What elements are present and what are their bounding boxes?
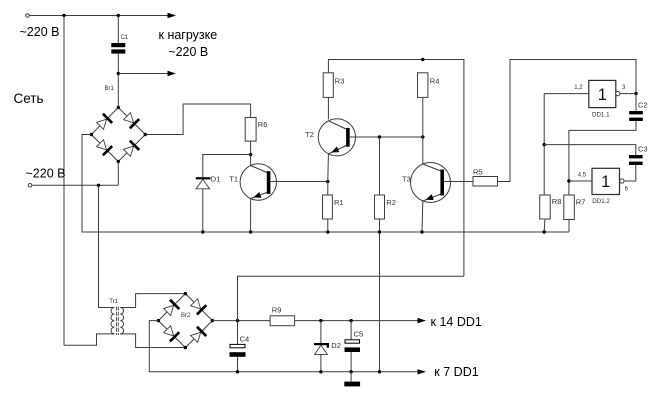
- node: T3 emitter on rail: [420, 230, 423, 233]
- svg-text:к 14 DD1: к 14 DD1: [431, 315, 482, 329]
- label C5: [354, 329, 364, 338]
- resistor R1: [323, 195, 333, 219]
- wire: R5 to DD1.1 output net: [498, 60, 637, 182]
- wire: node to D1 top: [203, 155, 251, 178]
- logic gate DD1.1 bubble: [616, 92, 620, 96]
- svg-text:C1: C1: [121, 35, 129, 41]
- svg-text:C2: C2: [638, 100, 648, 109]
- wire: C2 top lead: [635, 94, 637, 111]
- node: C4 on minus rail: [236, 370, 239, 373]
- wire: R8 bottom to rail: [543, 219, 546, 232]
- node: R2 line on minus rail: [378, 370, 381, 373]
- svg-text:к 7 DD1: к 7 DD1: [434, 365, 478, 379]
- diode D1 (triangle): [196, 179, 210, 188]
- arrow: to load (top line): [168, 13, 177, 18]
- wire: left mains to Tr1 primary bottom: [64, 334, 112, 345]
- transformer Tr1 core: [117, 307, 119, 336]
- wire: Br1 bottom vertex to lower mains: [117, 162, 119, 186]
- wire: C1 top lead: [117, 16, 119, 44]
- capacitor C4 plate+: [230, 344, 245, 347]
- wire: C3 top line: [544, 145, 636, 155]
- svg-text:R3: R3: [335, 77, 345, 86]
- terminal: mains input top: [26, 14, 30, 18]
- svg-text:1: 1: [601, 173, 610, 191]
- logic gate DD1.2 bubble: [620, 179, 624, 183]
- node: junction load arrow branch: [117, 72, 120, 75]
- wire: T3 emitter to rail: [421, 201, 424, 232]
- resistor R5: [473, 177, 498, 187]
- transformer Tr1 primary coil: [111, 308, 114, 334]
- wire: D2 anode lead: [320, 354, 322, 371]
- resistor R9: [270, 316, 295, 326]
- svg-text:R6: R6: [258, 120, 268, 129]
- wire: C2 bottom to DD1.2 input node: [569, 121, 636, 195]
- wire: T1 base to R1/T2 node: [270, 181, 327, 183]
- wire: T2 base line: [350, 136, 423, 138]
- wire: R6 bottom to T1 collector node: [250, 141, 252, 166]
- label C1: [121, 35, 129, 41]
- label k 7 DD1: [434, 365, 478, 379]
- wire: C1 bottom lead to bridge Br1: [117, 53, 119, 108]
- resistor R6: [245, 118, 256, 142]
- pin label 3: [622, 85, 626, 91]
- label DD1.1: [592, 111, 610, 118]
- transistor T3: [411, 163, 451, 203]
- wire: C4 top lead: [237, 321, 239, 345]
- node: T1 emitter on rail: [249, 230, 252, 233]
- node: D2 on minus rail: [319, 370, 322, 373]
- wire: Br1 right vertex to R6: [145, 104, 250, 135]
- label ~220 V (top left): [20, 25, 60, 39]
- wire: top supply rail: [328, 60, 464, 277]
- label T1: [229, 174, 238, 183]
- capacitor C3: [629, 155, 643, 165]
- svg-text:Tr1: Tr1: [109, 299, 118, 305]
- label C3: [638, 144, 648, 153]
- wire: Tr1 secondary bottom to Br2: [120, 334, 185, 348]
- label R6: [258, 120, 268, 129]
- capacitor C1: [111, 43, 125, 54]
- node: junction DD1.1 in / R8 / C3 line: [543, 143, 546, 146]
- resistor R8: [540, 195, 551, 219]
- label Br1: [105, 86, 115, 92]
- wire: load arrow line: [118, 73, 167, 75]
- svg-text:T3: T3: [402, 174, 411, 183]
- svg-text:T2: T2: [305, 130, 314, 139]
- label R4: [430, 77, 440, 86]
- wire: ground lead: [350, 372, 352, 382]
- transformer Tr1 secondary coil: [120, 308, 123, 334]
- svg-text:Сеть: Сеть: [14, 91, 44, 106]
- node: junction top line / left mains drop: [62, 14, 65, 17]
- label C2: [638, 100, 648, 109]
- wire: T1 emitter to rail: [250, 198, 252, 232]
- zener D2 triangle: [315, 345, 328, 354]
- wire: DD1.2 input: [569, 180, 592, 182]
- svg-text:R2: R2: [386, 198, 396, 207]
- label Br2: [181, 313, 191, 319]
- wire: left mains vertical: [63, 16, 65, 346]
- svg-text:C5: C5: [354, 329, 364, 338]
- wire: plus feed up to top circuit: [238, 276, 464, 320]
- node: R2 on rail: [378, 230, 381, 233]
- node: junction DD1.2 in / R7: [567, 179, 570, 182]
- wire: Br2 left vertex to minus rail: [149, 321, 417, 372]
- svg-text:DD1.1: DD1.1: [592, 111, 610, 118]
- wire: Br2 right vertex to R9: [212, 320, 270, 322]
- pin label 6: [625, 186, 629, 192]
- capacitor C5 plate-: [345, 347, 361, 352]
- svg-text:R5: R5: [473, 167, 483, 176]
- svg-text:Br1: Br1: [105, 86, 115, 92]
- logic gate DD1.1 box: [589, 80, 616, 107]
- arrow: to pin 7 DD1: [418, 369, 427, 374]
- label R3: [335, 77, 345, 86]
- svg-text:Br2: Br2: [181, 313, 191, 319]
- terminal: mains input bottom: [28, 184, 32, 188]
- svg-text:D1: D1: [211, 174, 221, 183]
- node: junction R6/D1/T1 collector: [249, 153, 252, 156]
- wire: R9 to pin14 arrow: [295, 320, 418, 322]
- node: R1 on rail: [326, 230, 329, 233]
- wire: Tr1 secondary top to Br2: [120, 294, 185, 308]
- wire: lower mains lead: [32, 184, 118, 186]
- wire: R3 bottom to T2 collector: [327, 97, 329, 119]
- label Set (mains): [14, 91, 44, 106]
- transistor T2: [318, 119, 355, 156]
- bridge rectifier Br1: [90, 106, 147, 163]
- wire: node to R1 top: [327, 182, 329, 196]
- node: D2 top junction: [319, 319, 322, 322]
- label ~220 V (load): [168, 45, 208, 59]
- wire: DD1.1 input from R8 node: [544, 94, 589, 195]
- node: junction R4 / T3 collector: [421, 135, 424, 138]
- label k 14 DD1: [431, 315, 482, 329]
- transistor T1: [240, 164, 276, 200]
- capacitor C2: [629, 111, 643, 121]
- svg-text:DD1.2: DD1.2: [592, 198, 610, 205]
- logic gate DD1.2 box: [592, 168, 620, 194]
- node: junction lower mains / transformer drop: [97, 184, 100, 187]
- diode D1 (cathode bar): [196, 177, 211, 179]
- wire: D1 anode to rail: [202, 189, 204, 232]
- svg-text:4,5: 4,5: [578, 172, 587, 178]
- pin label 4,5: [578, 172, 587, 178]
- svg-text:~220 В: ~220 В: [26, 167, 66, 181]
- svg-text:~220 В: ~220 В: [20, 25, 60, 39]
- wire: DD1.1 output: [620, 93, 636, 95]
- capacitor C4 plate-: [230, 352, 246, 357]
- label R7: [576, 197, 586, 206]
- label DD1.2: [592, 198, 610, 205]
- logic gate DD1.1 symbol 1: [598, 86, 607, 104]
- node: junction T2 base / R2: [378, 135, 381, 138]
- node: junction top line / C1 branch: [117, 14, 120, 17]
- svg-text:~220 В: ~220 В: [168, 45, 208, 59]
- resistor R7: [564, 195, 575, 220]
- label T2: [305, 130, 314, 139]
- svg-text:T1: T1: [229, 174, 238, 183]
- label R9: [272, 306, 282, 315]
- svg-text:D2: D2: [331, 341, 341, 350]
- node: R4 top junction: [421, 58, 424, 61]
- wire: D2 top lead: [320, 321, 322, 343]
- zener D2 cathode bar: [314, 343, 329, 348]
- wire: top mains line: [30, 15, 168, 17]
- node: C5 top junction: [349, 319, 352, 322]
- svg-text:R4: R4: [430, 77, 440, 86]
- label D2: [331, 341, 341, 350]
- label R1: [334, 198, 344, 207]
- wire: C5 bottom lead: [350, 352, 352, 372]
- logic gate DD1.2 symbol 1: [601, 173, 610, 191]
- label T3: [402, 174, 411, 183]
- wire: R7 bottom to rail: [568, 220, 570, 233]
- node: junction C4 / feed line: [236, 319, 239, 322]
- resistor R4: [418, 73, 428, 98]
- svg-text:C3: C3: [638, 144, 648, 153]
- wire: R4 bottom to junction: [422, 97, 424, 137]
- node: R8 on rail: [543, 230, 546, 233]
- label R8: [552, 197, 562, 206]
- svg-text:1: 1: [598, 86, 607, 104]
- resistor R2: [375, 195, 385, 219]
- pin label 1,2: [574, 85, 583, 91]
- bridge rectifier Br2: [157, 292, 214, 349]
- node: junction DD1.1 out / C2: [634, 92, 637, 95]
- capacitor C5 plate+: [345, 340, 360, 343]
- label D1: [211, 174, 221, 183]
- node: junction T1 base / T2 emitter / R1: [326, 180, 329, 183]
- label Tr1: [109, 299, 118, 305]
- wire: R2 bottom through rail to lower rail: [379, 219, 381, 372]
- arrow: to pin 14 DD1: [418, 318, 427, 323]
- svg-text:R1: R1: [334, 198, 344, 207]
- node: C5 on minus rail: [349, 370, 352, 373]
- label R5: [473, 167, 483, 176]
- label ~220 V (bottom left): [26, 167, 66, 181]
- label C4: [240, 334, 250, 343]
- wire: T3 base to R5: [444, 181, 473, 183]
- wire: C3 bottom to DD1.2 output: [624, 165, 636, 181]
- wire: R2 top lead: [379, 137, 381, 195]
- wire: C4 bottom lead: [237, 357, 239, 372]
- wire: R1 bottom to rail: [327, 219, 329, 232]
- svg-text:к нагрузке: к нагрузке: [159, 28, 218, 42]
- svg-text:R9: R9: [272, 306, 282, 315]
- svg-text:C4: C4: [240, 334, 250, 343]
- wire: Br1 left vertex down to common rail: [82, 135, 569, 233]
- ground: [344, 382, 360, 387]
- svg-text:1,2: 1,2: [574, 85, 583, 91]
- label R2: [386, 198, 396, 207]
- wire: T2 emitter down to node: [327, 154, 330, 182]
- label k nagruzke: [159, 28, 218, 42]
- wire: junction to T3 collector: [422, 137, 424, 164]
- arrow: to load 220V: [168, 71, 177, 76]
- wire: C5 top lead: [350, 321, 352, 340]
- svg-text:R8: R8: [552, 197, 562, 206]
- wire: mains junction down to Tr1 primary: [99, 185, 113, 307]
- svg-text:R7: R7: [576, 197, 586, 206]
- node: D1 on rail: [201, 230, 204, 233]
- resistor R3: [323, 73, 333, 98]
